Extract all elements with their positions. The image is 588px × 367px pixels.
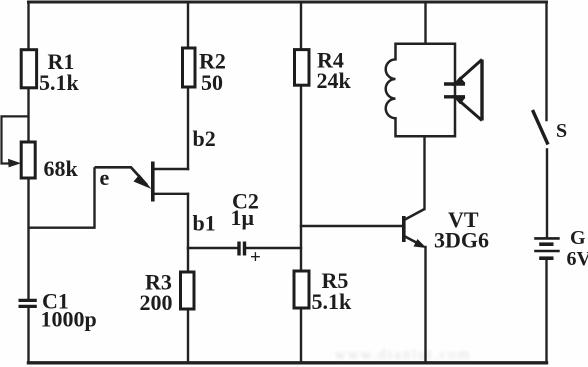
- wire b1 column down to R3: [187, 194, 189, 272]
- earphone B (magnet bars): [444, 84, 465, 97]
- potentiometer wiper arm: [2, 116, 29, 167]
- wire VT emitter column to bottom rail: [424, 247, 426, 363]
- svg-text:200: 200: [140, 290, 173, 315]
- wire 68k pot to C1: [27, 178, 29, 299]
- switch S: [533, 110, 568, 145]
- wire right column top (rail to switch): [545, 2, 547, 120]
- wire bottom rail: [29, 361, 547, 364]
- VT collector lead: [405, 209, 425, 220]
- svg-text:+: +: [250, 247, 261, 268]
- unijunction transistor V1 (bar): [95, 162, 155, 202]
- resistor R3: [140, 270, 195, 316]
- svg-text:b1: b1: [193, 211, 216, 236]
- capacitor C1 1000p: [19, 289, 97, 332]
- resistor R1: [21, 49, 79, 95]
- wire battery to bottom rail: [545, 260, 547, 363]
- wire switch to battery: [546, 150, 548, 238]
- wire R2 column top (rail to R2): [187, 2, 189, 48]
- transformer/earphone box with coil L: [386, 44, 455, 137]
- svg-text:e: e: [100, 165, 110, 190]
- emitter arrowhead: [134, 175, 152, 190]
- resistor R4: [295, 48, 352, 94]
- wire R4 column top (rail to R4): [300, 2, 302, 50]
- svg-text:5.1k: 5.1k: [312, 289, 353, 314]
- wire left column top (rail to R1): [27, 2, 29, 50]
- capacitor C2 1u: [231, 189, 261, 269]
- svg-text:68k: 68k: [44, 156, 79, 181]
- wire R1 to 68k pot: [27, 88, 29, 142]
- wire coil column top (rail to box): [424, 2, 426, 44]
- wire b1 lead horizontal: [154, 193, 188, 195]
- VT base bar: [402, 216, 406, 242]
- VT emitter lead: [405, 237, 421, 246]
- watermark (faint): [335, 347, 472, 363]
- wire b2 lead horizontal: [154, 168, 188, 170]
- resistor R2: [183, 48, 226, 95]
- svg-text:S: S: [556, 120, 567, 142]
- wire R4 down to R5: [300, 85, 302, 271]
- svg-text:G: G: [570, 227, 586, 249]
- wire C1 to bottom rail: [27, 308, 29, 363]
- battery G 6V: [534, 227, 588, 270]
- svg-text:6V: 6V: [567, 248, 588, 270]
- wire top rail: [29, 1, 547, 4]
- wire b1 column to C2 left plate: [188, 247, 237, 249]
- wire R3 to bottom rail: [187, 309, 189, 363]
- wire R2 to b2 lead: [187, 87, 189, 169]
- svg-text:24k: 24k: [317, 68, 352, 93]
- svg-text:50: 50: [201, 70, 223, 95]
- svg-text:www.dianlut.com: www.dianlut.com: [335, 347, 472, 363]
- wire emitter return to left column: [29, 167, 95, 227]
- svg-text:5.1k: 5.1k: [39, 70, 80, 95]
- resistor R5: [294, 268, 352, 314]
- VT emitter arrowhead: [414, 239, 427, 248]
- svg-text:3DG6: 3DG6: [434, 228, 489, 253]
- svg-text:1μ: 1μ: [231, 205, 255, 230]
- wire C2 right plate to R4 column: [246, 247, 301, 249]
- earphone B (horn triangle with arrows): [452, 60, 482, 121]
- emitter lead of V1: [95, 167, 148, 185]
- wire box bottom to VT collector: [423, 136, 425, 209]
- svg-text:b2: b2: [193, 126, 216, 151]
- transistor VT 3DG6: [402, 207, 489, 253]
- coil L and box outline: [386, 44, 455, 137]
- wire VT base horizontal: [301, 225, 402, 227]
- wire R5 to bottom rail: [300, 308, 302, 363]
- svg-text:1000p: 1000p: [41, 307, 97, 332]
- potentiometer RP 68k: [21, 142, 78, 181]
